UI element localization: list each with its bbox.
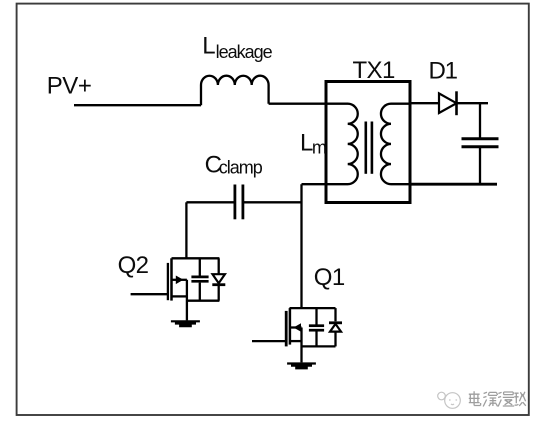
transistor Q1 [252, 308, 336, 362]
transformer TX1 core [364, 122, 367, 174]
transistor Q2 [131, 258, 220, 320]
wire [269, 103, 326, 105]
watermark logo [438, 392, 461, 408]
wire [185, 202, 187, 258]
capacitor Cclamp [233, 185, 236, 220]
svg-text:m: m [312, 138, 327, 158]
capacitor output [462, 137, 499, 140]
ground Q1 [287, 362, 316, 369]
capacitor Q2 parallel [191, 258, 208, 300]
diode Q1 body [329, 308, 342, 346]
watermark text 电源漫谈 [469, 391, 526, 406]
wire [457, 102, 489, 104]
transformer TX1 secondary winding [381, 104, 410, 184]
capacitor Q1 parallel [309, 308, 324, 346]
wire [479, 103, 481, 139]
svg-text:PV+: PV+ [47, 73, 92, 100]
diode D1 [439, 93, 457, 113]
wire [74, 104, 201, 106]
wire [186, 201, 235, 203]
wire [410, 183, 497, 186]
transformer TX1 box [326, 82, 410, 203]
svg-text:clamp: clamp [219, 157, 263, 177]
diode Q2 body [212, 258, 225, 300]
svg-text:L: L [202, 32, 215, 59]
wire [479, 147, 481, 184]
wire [410, 102, 439, 104]
inductor Lleakage [201, 76, 269, 106]
transformer TX1 primary winding [302, 104, 358, 184]
wire [243, 201, 302, 203]
wire [300, 184, 302, 308]
svg-text:Q2: Q2 [118, 252, 149, 279]
svg-text:Q1: Q1 [314, 264, 345, 291]
svg-text:TX1: TX1 [353, 57, 395, 84]
ground Q2 [171, 320, 200, 327]
svg-text:D1: D1 [429, 57, 458, 84]
svg-text:leakage: leakage [216, 42, 273, 62]
